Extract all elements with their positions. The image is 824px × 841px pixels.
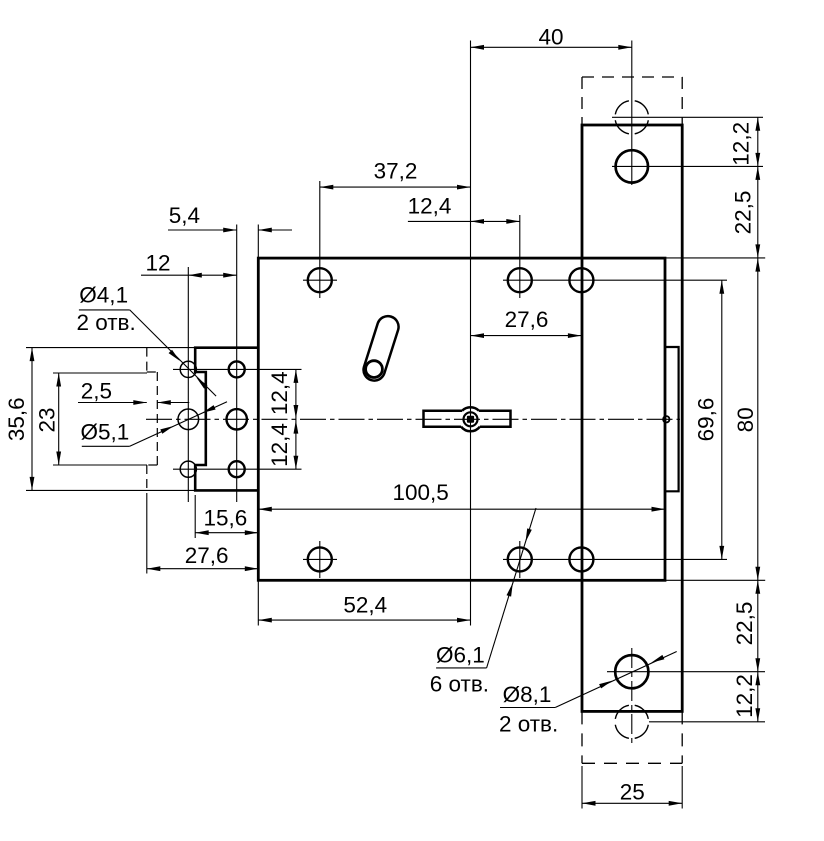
svg-text:27,6: 27,6: [505, 307, 549, 332]
bracket hole column centerline: [236, 225, 238, 503]
svg-text:12,4: 12,4: [267, 423, 292, 467]
svg-text:12,2: 12,2: [729, 122, 754, 166]
top plate phantom extension dashed: [582, 76, 682, 78]
pin ring: [464, 412, 478, 426]
dimension 25: [582, 802, 682, 804]
extension lines bottom 25 dim: [581, 766, 583, 809]
ext top-middle hole column: [519, 215, 521, 298]
svg-text:12: 12: [145, 251, 170, 276]
main lock body outline: [258, 258, 665, 580]
dimension 27,6 left: [147, 568, 258, 570]
dimension 27,6 top: [471, 335, 582, 337]
svg-text:80: 80: [733, 407, 758, 432]
svg-text:12,4: 12,4: [267, 371, 292, 415]
main horizontal centerline: [146, 418, 680, 420]
svg-text:2 отв.: 2 отв.: [76, 310, 135, 335]
svg-text:100,5: 100,5: [392, 480, 448, 505]
key pin wings bar: [424, 411, 463, 427]
bracket hole row centerlines: [173, 368, 302, 370]
dimension 12,4 top: [408, 220, 520, 222]
dimension 23: [58, 373, 60, 465]
dimension 80: [757, 258, 759, 580]
left bracket flap outline: [195, 348, 258, 491]
svg-text:Ø8,1: Ø8,1: [503, 682, 552, 707]
plate hole horizontal centerlines: [612, 165, 763, 167]
svg-text:35,6: 35,6: [4, 397, 29, 441]
ext top-left hole column: [319, 181, 321, 298]
dimension 2,5: [78, 402, 147, 404]
phantom hole bottom: [635, 725, 649, 739]
pin square hole: [467, 416, 474, 423]
phantom hole top: [635, 120, 649, 134]
svg-text:15,6: 15,6: [204, 506, 248, 531]
key slot capsule: [364, 316, 399, 380]
svg-text:25: 25: [620, 780, 645, 805]
extension line body left edge down: [257, 580, 259, 625]
dimension 12: [188, 274, 236, 276]
dimension 52,4: [258, 619, 470, 621]
ext bracket left edge down: [194, 495, 196, 538]
dimension 12,4/12,4 left: [295, 369, 297, 469]
latch bolt detail right side: [665, 347, 679, 491]
svg-text:Ø6,1: Ø6,1: [436, 642, 485, 667]
plate hole vertical centerline bottom: [631, 648, 633, 746]
plate hole vertical centerline top: [631, 41, 633, 186]
svg-text:5,4: 5,4: [169, 203, 200, 228]
dimension 100,5: [258, 508, 665, 510]
svg-text:23: 23: [35, 407, 60, 432]
svg-text:Ø4,1: Ø4,1: [79, 283, 128, 308]
extension lines left side: [26, 347, 195, 349]
hole row centerlines: [303, 279, 337, 281]
svg-text:69,6: 69,6: [693, 398, 718, 442]
phantom hole column centerline: [187, 267, 189, 502]
svg-text:12,2: 12,2: [732, 674, 757, 718]
dimension 69,6: [721, 280, 723, 559]
right mounting plate outline: [582, 125, 682, 711]
svg-text:Ø5,1: Ø5,1: [81, 420, 130, 445]
key slot round hole: [366, 361, 383, 378]
svg-text:52,4: 52,4: [343, 593, 387, 618]
dimension 15,6: [195, 532, 258, 534]
svg-text:12,4: 12,4: [408, 194, 452, 219]
svg-text:27,6: 27,6: [185, 543, 229, 568]
dimension 22,5 top: [757, 166, 759, 258]
key pin central boss arcs: [462, 407, 479, 410]
dimension 40: [471, 46, 632, 48]
bracket holes D4.1 / D5.1: [229, 361, 245, 377]
ext body left edge up: [257, 225, 259, 259]
svg-text:2 отв.: 2 отв.: [499, 711, 558, 736]
bottom plate phantom extension dashed: [581, 711, 583, 763]
phantom hole circles left column: [180, 361, 196, 377]
six body mounting holes D6.1: [308, 268, 332, 292]
dimension 35,6: [31, 348, 33, 491]
extension lines right side: [582, 257, 765, 259]
extension flap edge down: [146, 493, 148, 574]
dimension 37,2: [320, 186, 471, 188]
svg-text:22,5: 22,5: [731, 191, 756, 235]
dimension 5,4: [168, 229, 237, 231]
svg-text:2,5: 2,5: [81, 378, 112, 403]
dimension 22,5 bottom: [757, 580, 759, 671]
svg-text:22,5: 22,5: [732, 602, 757, 646]
dimension 12,2 bottom: [757, 672, 759, 722]
pin vertical centerline: [470, 41, 472, 626]
bolt pivot dot: [663, 416, 669, 422]
svg-text:37,2: 37,2: [374, 159, 418, 184]
svg-text:40: 40: [538, 25, 563, 50]
phantom flap folded-out dashed outline: [146, 348, 148, 372]
plate holes D8.1: [616, 150, 648, 182]
dimension 12,2 top: [757, 117, 759, 166]
svg-text:6 отв.: 6 отв.: [430, 672, 489, 697]
